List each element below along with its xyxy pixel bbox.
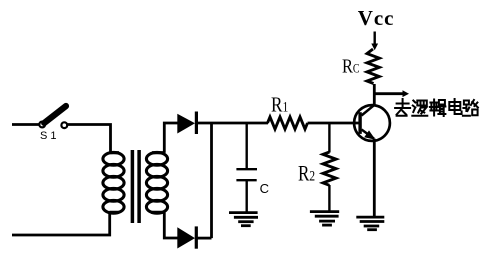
ground (capacitor) (229, 213, 258, 226)
wire Vcc arrow down (374, 32, 376, 45)
transformer T1 core (132, 150, 139, 223)
svg-text:C: C (260, 181, 269, 196)
wire diode D2 output to rail (198, 237, 212, 240)
capacitor C (236, 123, 257, 212)
char 路 (463, 100, 478, 116)
svg-text:R1: R1 (271, 94, 288, 117)
wire secondary top to diode D1 (164, 123, 177, 153)
ground (R2) (310, 212, 339, 226)
wire collector up (373, 84, 376, 105)
wire secondary bottom to diode D2 (164, 212, 177, 238)
label Rc (342, 55, 360, 78)
wire R1 to base (308, 122, 359, 125)
label R2 (298, 161, 315, 186)
diode D1 (177, 112, 196, 135)
transformer T1 primary coil (103, 152, 124, 213)
wire output arrow (374, 92, 403, 95)
diode D2 (177, 226, 196, 248)
label R1 (271, 94, 288, 117)
wire main line D1 to R1 (198, 122, 269, 125)
transformer T1 secondary coil (146, 152, 167, 213)
wire primary bottom (12, 212, 110, 235)
label 去逻辑电路 (395, 99, 478, 116)
char 电 (449, 99, 461, 114)
char 逻 (412, 101, 427, 116)
wire R2 tap (328, 123, 330, 153)
wire R2 to ground (328, 185, 330, 211)
resistor Rc (367, 49, 379, 84)
ground (emitter) (356, 217, 384, 230)
switch S1 (39, 106, 67, 128)
char 去 (395, 99, 410, 116)
wire switch to transformer (68, 125, 111, 154)
svg-text:Vcc: Vcc (358, 6, 395, 30)
transistor Q1 (354, 105, 390, 141)
resistor R2 (323, 152, 336, 185)
svg-text:S 1: S 1 (40, 130, 57, 142)
wire input top-left (12, 123, 39, 126)
wire emitter down (373, 139, 376, 217)
char 辑 (430, 100, 446, 117)
wire bridge right rail (210, 123, 213, 238)
resistor R1 (268, 117, 308, 129)
